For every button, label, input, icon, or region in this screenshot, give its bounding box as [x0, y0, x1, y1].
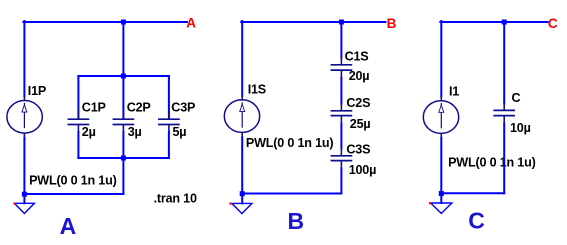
svg-text:A: A — [60, 213, 77, 239]
wire cap-bank top bus A — [78, 75, 168, 77]
capacitor C2P — [113, 76, 133, 158]
svg-text:B: B — [387, 16, 397, 31]
wire top rail A horizontal — [23, 21, 187, 23]
svg-text:C3P: C3P — [171, 100, 195, 114]
capacitor C1P — [68, 76, 88, 158]
wire left rail B upper — [241, 21, 243, 96]
svg-text:PWL(0 0 1n 1u): PWL(0 0 1n 1u) — [246, 136, 333, 150]
wire right rail B between C2S and C3S — [340, 124, 342, 149]
wire bottom return B — [242, 193, 341, 195]
node A junction dot — [121, 20, 126, 25]
svg-text:PWL(0 0 1n 1u): PWL(0 0 1n 1u) — [29, 173, 116, 187]
wire from bottom bus down A — [122, 158, 124, 194]
svg-text:I1P: I1P — [28, 84, 46, 98]
junction dot bottom B — [240, 191, 245, 196]
wire cap-bank bottom bus A — [78, 157, 168, 159]
capacitor C1S — [331, 57, 351, 79]
ground B — [232, 203, 252, 213]
svg-text:C: C — [468, 208, 485, 234]
wire ground stub B — [241, 196, 243, 204]
current source I1 — [423, 96, 458, 139]
svg-text:25µ: 25µ — [350, 117, 371, 131]
svg-text:C2S: C2S — [346, 96, 370, 110]
current source I1P — [7, 96, 42, 139]
ground C — [431, 203, 452, 213]
capacitor C — [494, 103, 514, 124]
svg-text:3µ: 3µ — [128, 125, 142, 139]
wire top rail B horizontal — [241, 21, 385, 23]
junction dot bottom bus A — [121, 156, 126, 161]
wire bottom return A — [24, 193, 123, 195]
node B junction dot — [339, 20, 344, 25]
wire left rail B lower — [241, 138, 243, 194]
svg-text:2µ: 2µ — [82, 125, 96, 139]
svg-text:.tran 10: .tran 10 — [154, 192, 197, 206]
capacitor C3S — [331, 148, 351, 169]
red speck artifact on ground B — [229, 203, 231, 205]
svg-text:C: C — [548, 16, 558, 31]
junction dot bottom A — [22, 192, 27, 197]
wire right rail C above cap — [503, 22, 505, 104]
capacitor C3P — [159, 76, 179, 158]
wire right rail C below cap — [503, 124, 505, 194]
wire from node A down to cap bus — [122, 22, 124, 76]
svg-text:C3S: C3S — [346, 142, 370, 156]
red speck artifact on ground C — [429, 202, 431, 204]
svg-text:5µ: 5µ — [173, 125, 187, 139]
svg-text:I1: I1 — [449, 85, 459, 99]
svg-text:A: A — [186, 16, 196, 31]
svg-text:C: C — [512, 91, 521, 105]
wire right rail B segment above C1S — [340, 22, 342, 58]
svg-text:100µ: 100µ — [349, 163, 376, 177]
svg-text:20µ: 20µ — [349, 69, 370, 83]
wire bottom return C — [441, 192, 504, 194]
junction dot top bus A — [121, 74, 126, 79]
wire right rail B below C3S — [340, 169, 342, 194]
svg-text:C2P: C2P — [127, 100, 151, 114]
svg-text:I1S: I1S — [248, 83, 266, 97]
wire ground stub C — [440, 195, 442, 203]
wire left rail C lower — [440, 138, 442, 193]
wire right rail B between C1S and C2S — [340, 78, 342, 104]
svg-text:C1S: C1S — [345, 49, 369, 63]
wire ground stub A — [23, 196, 25, 203]
svg-text:10µ: 10µ — [510, 121, 531, 135]
current source I1S — [224, 96, 259, 139]
svg-text:C1P: C1P — [82, 100, 106, 114]
wire left rail A lower — [23, 138, 25, 194]
capacitor C2S — [331, 103, 351, 124]
red speck artifact on ground A — [14, 203, 16, 205]
wire left rail C upper — [440, 21, 442, 97]
svg-text:PWL(0 0 1n 1u): PWL(0 0 1n 1u) — [448, 156, 535, 170]
junction dot bottom C — [439, 191, 444, 196]
ground A — [14, 203, 34, 213]
node C junction dot — [502, 20, 507, 25]
svg-text:B: B — [288, 208, 305, 234]
wire left rail A upper — [23, 21, 25, 96]
wire top rail C horizontal — [440, 21, 547, 23]
